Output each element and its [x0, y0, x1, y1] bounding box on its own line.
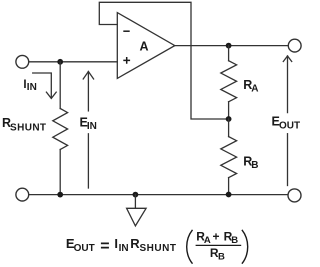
op-amp U1 triangle — [117, 13, 175, 79]
svg-text:RB: RB — [243, 155, 258, 172]
arrow EIN annotation upper segment with head — [87, 72, 89, 111]
arrow EIN annotation lower segment — [87, 134, 89, 188]
svg-text:RA: RA — [243, 78, 258, 95]
resistor RSHUNT — [53, 109, 68, 150]
svg-text:RB: RB — [210, 246, 225, 263]
svg-text:RA+RB: RA+RB — [196, 229, 238, 246]
input terminal top-left — [16, 55, 29, 68]
resistor RB — [221, 137, 237, 178]
arrow EOUT annotation upper segment with head — [287, 56, 289, 113]
svg-text:EOUT=​IINRSHUNT: EOUT=​IINRSHUNT — [66, 236, 177, 255]
formula fraction bar — [196, 244, 242, 246]
node junction bottom / ground — [133, 192, 139, 198]
output terminal bottom-right — [288, 189, 301, 202]
wire op-amp output — [175, 45, 288, 47]
arrow EOUT annotation lower segment — [287, 134, 289, 186]
ground symbol — [134, 195, 136, 208]
svg-text:RSHUNT: RSHUNT — [2, 116, 46, 134]
wire RA bottom lead — [228, 102, 230, 119]
svg-text:A: A — [139, 40, 148, 54]
svg-text:IIN: IIN — [23, 79, 36, 93]
wire RB bottom lead — [228, 178, 230, 195]
arrow IIN current annotation — [33, 73, 52, 98]
wire bottom rail — [29, 194, 288, 196]
wire RB top lead — [228, 119, 230, 137]
input terminal bottom-left — [16, 188, 29, 201]
wire RA top lead — [228, 46, 230, 61]
svg-text:EOUT: EOUT — [272, 115, 301, 132]
output terminal top-right — [288, 39, 301, 52]
wire RSHUNT bottom lead — [59, 150, 61, 195]
svg-text:EIN: EIN — [80, 116, 97, 133]
node junction input / RSHUNT — [57, 59, 63, 65]
formula right parenthesis — [242, 230, 248, 264]
node junction bottom / RB — [226, 192, 232, 198]
wire input to noninverting input — [29, 61, 117, 63]
node junction bottom / RSHUNT — [57, 192, 63, 198]
resistor RA — [221, 61, 237, 102]
wire feedback loop from inverting input over the top to RA/RB junction — [99, 2, 228, 119]
op-amp plus pin symbol — [123, 57, 130, 64]
wire RSHUNT top lead — [59, 62, 61, 109]
node junction RA / RB / feedback — [226, 116, 232, 122]
formula left parenthesis — [187, 230, 193, 264]
op-amp minus pin symbol — [123, 30, 129, 32]
node junction output / RA — [226, 43, 232, 49]
